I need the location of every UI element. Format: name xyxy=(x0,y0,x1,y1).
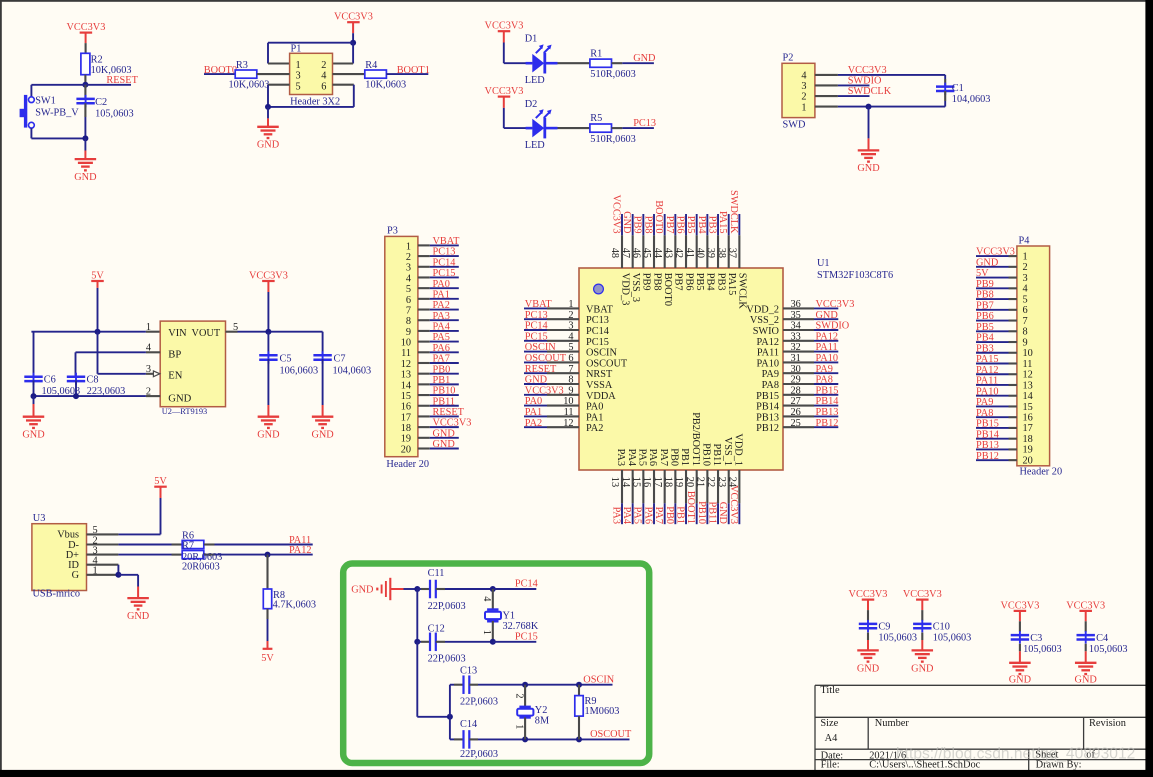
mcu U1 STM32F103C8T6 xyxy=(579,268,783,470)
svg-text:PB5: PB5 xyxy=(694,273,705,291)
capacitor C10 xyxy=(921,600,923,611)
svg-text:29: 29 xyxy=(791,375,801,386)
U1 pin 16 net PA6 xyxy=(641,449,658,525)
svg-text:R4: R4 xyxy=(365,60,377,71)
svg-text:41: 41 xyxy=(684,248,695,258)
svg-text:PB9: PB9 xyxy=(632,216,643,234)
svg-text:USB-mrico: USB-mrico xyxy=(33,589,80,600)
svg-text:LED: LED xyxy=(525,140,546,151)
capacitor C13 net OSCIN xyxy=(450,684,454,686)
svg-text:PC15: PC15 xyxy=(586,337,609,348)
svg-text:2: 2 xyxy=(513,693,524,698)
svg-text:2: 2 xyxy=(568,310,573,321)
svg-text:VBAT: VBAT xyxy=(586,304,614,315)
svg-text:1: 1 xyxy=(568,299,573,310)
svg-text:1: 1 xyxy=(296,60,301,71)
svg-text:19: 19 xyxy=(1023,445,1033,456)
capacitor C2 xyxy=(84,85,86,99)
pin 10 net PB3 xyxy=(976,343,1033,359)
U1 pin 43 net PB7 xyxy=(663,214,684,291)
svg-text:PA12: PA12 xyxy=(976,365,999,376)
node xyxy=(866,104,872,110)
svg-text:10: 10 xyxy=(401,338,411,349)
svg-text:20: 20 xyxy=(684,477,695,487)
svg-text:PB10: PB10 xyxy=(696,501,707,524)
capacitor C1 xyxy=(944,75,946,79)
pin 6 net PB7 xyxy=(976,300,1028,316)
svg-text:PB11: PB11 xyxy=(711,443,722,466)
power VCC3V3 (U2 out) xyxy=(249,270,288,281)
resistor R9 xyxy=(576,682,582,688)
svg-text:13: 13 xyxy=(401,370,411,381)
svg-text:PA10: PA10 xyxy=(756,358,779,369)
svg-text:LED: LED xyxy=(525,75,546,86)
power VCC3V3 (reset pull-up) xyxy=(66,22,105,33)
svg-text:28: 28 xyxy=(791,385,801,396)
svg-text:43: 43 xyxy=(663,248,674,258)
power VCC3V3 (C3) xyxy=(1000,600,1039,611)
svg-text:45: 45 xyxy=(641,248,652,258)
U1 pin 29 net PA8 xyxy=(762,375,839,391)
pin 5 VOUT xyxy=(226,331,238,333)
pin 14 net PB1 xyxy=(401,375,459,391)
U1 pin 13 net PA3 xyxy=(609,449,626,525)
svg-text:3: 3 xyxy=(146,364,151,375)
capacitor C12 net PC15 xyxy=(416,589,418,642)
svg-text:U2—RT9193: U2—RT9193 xyxy=(162,407,208,416)
svg-text:PB10: PB10 xyxy=(433,386,456,397)
svg-text:PB11: PB11 xyxy=(706,501,717,524)
svg-text:SW-PB_V: SW-PB_V xyxy=(35,108,79,119)
svg-text:C9: C9 xyxy=(878,622,890,633)
power 5V (USB) xyxy=(154,476,167,487)
svg-text:PB7: PB7 xyxy=(664,216,675,234)
svg-text:Header 20: Header 20 xyxy=(1020,467,1063,478)
svg-text:18: 18 xyxy=(663,477,674,487)
svg-text:VDD_3: VDD_3 xyxy=(619,273,630,306)
svg-text:11: 11 xyxy=(401,348,411,359)
svg-text:GND: GND xyxy=(816,310,839,321)
svg-text:VCC3V3: VCC3V3 xyxy=(1066,600,1105,611)
node xyxy=(95,329,101,335)
svg-text:9: 9 xyxy=(406,327,411,338)
svg-text:PB12: PB12 xyxy=(816,418,839,429)
svg-text:PC15: PC15 xyxy=(433,268,456,279)
svg-text:GND: GND xyxy=(433,428,456,439)
svg-text:PA12: PA12 xyxy=(289,545,312,556)
svg-text:PB3: PB3 xyxy=(715,273,726,291)
U1 pin 48 net VCC3V3 xyxy=(609,195,630,306)
U1 pin 22 net PB11 xyxy=(705,443,722,524)
svg-text:D2: D2 xyxy=(525,99,538,110)
svg-text:PB4: PB4 xyxy=(696,216,707,234)
U1 pin 5 net OSCIN xyxy=(524,342,617,358)
svg-text:PB1: PB1 xyxy=(674,506,685,524)
svg-text:VDD_1: VDD_1 xyxy=(732,433,743,466)
svg-text:3: 3 xyxy=(406,263,411,274)
svg-text:C6: C6 xyxy=(44,374,56,385)
svg-text:PB4: PB4 xyxy=(976,333,994,344)
svg-text:G: G xyxy=(72,570,80,581)
U1 pin 19 net PB1 xyxy=(673,448,690,524)
wire xyxy=(404,588,418,590)
svg-text:C4: C4 xyxy=(1096,633,1108,644)
U1 pin 10 net PA0 xyxy=(524,396,603,412)
svg-text:PB5: PB5 xyxy=(685,216,696,234)
svg-text:PB13: PB13 xyxy=(756,412,779,423)
svg-text:16: 16 xyxy=(401,402,411,413)
pin 4 net PC15 xyxy=(406,268,459,284)
svg-text:PA9: PA9 xyxy=(976,397,993,408)
svg-text:3: 3 xyxy=(296,71,301,82)
svg-text:PA7: PA7 xyxy=(658,449,669,466)
svg-text:VCC3V3: VCC3V3 xyxy=(433,418,472,429)
pin 11 net PA15 xyxy=(976,354,1032,370)
node xyxy=(115,572,121,578)
U1 pin 27 net PB14 xyxy=(756,396,838,412)
pin 9 net PB4 xyxy=(976,333,1028,349)
power VCC3V3 (C9) xyxy=(849,589,888,600)
capacitor C6 xyxy=(33,332,35,377)
svg-text:BP: BP xyxy=(168,350,181,361)
resistor R6 net PA11 xyxy=(118,544,171,546)
U3 pin 1 G xyxy=(72,566,119,582)
svg-text:VDD_2: VDD_2 xyxy=(746,304,779,315)
svg-text:10: 10 xyxy=(1023,348,1033,359)
svg-text:1: 1 xyxy=(146,322,151,333)
U1 pin 18 net PB0 xyxy=(663,448,680,524)
svg-text:PA8: PA8 xyxy=(816,375,833,386)
wire xyxy=(268,42,353,44)
svg-text:U3: U3 xyxy=(33,513,46,524)
svg-text:Y2: Y2 xyxy=(535,705,548,716)
U1 pin 34 net SWDIO xyxy=(753,321,850,337)
svg-text:2: 2 xyxy=(801,92,806,103)
pin 1 net VCC3V3 xyxy=(976,247,1028,263)
LED D1 xyxy=(526,44,558,73)
U1 pin 42 net PB6 xyxy=(673,214,694,291)
svg-text:PC13: PC13 xyxy=(525,310,548,321)
svg-text:PC14: PC14 xyxy=(586,326,609,337)
svg-text:PC15: PC15 xyxy=(525,331,548,342)
svg-text:A4: A4 xyxy=(825,733,839,744)
pin 16 net PB11 xyxy=(401,396,459,412)
svg-text:Revision: Revision xyxy=(1089,718,1127,729)
svg-text:VCC3V3: VCC3V3 xyxy=(485,86,524,97)
svg-text:105,0603: 105,0603 xyxy=(1089,644,1128,655)
U1 pin 45 net PB8 xyxy=(641,214,662,291)
svg-text:GND: GND xyxy=(857,664,880,675)
svg-text:15: 15 xyxy=(401,391,411,402)
LED D2 xyxy=(526,109,558,138)
U1 pin 25 net PB12 xyxy=(756,418,838,434)
svg-text:5V: 5V xyxy=(154,476,167,487)
svg-text:5V: 5V xyxy=(91,270,104,281)
svg-text:19: 19 xyxy=(401,434,411,445)
pin 12 net PA12 xyxy=(976,365,1033,381)
svg-text:21: 21 xyxy=(695,477,706,487)
capacitor C11 net PC14 xyxy=(417,588,421,590)
svg-text:PB1: PB1 xyxy=(679,448,690,466)
svg-text:OSCOUT: OSCOUT xyxy=(525,353,567,364)
svg-text:4: 4 xyxy=(1023,284,1028,295)
svg-text:GND: GND xyxy=(351,584,374,595)
ground (P2) xyxy=(868,107,870,139)
ground (C4) xyxy=(1075,663,1098,686)
svg-text:PB14: PB14 xyxy=(816,396,839,407)
svg-text:10K,0603: 10K,0603 xyxy=(365,79,406,90)
wire VIN xyxy=(31,331,145,333)
svg-text:PA6: PA6 xyxy=(647,449,658,466)
U1 pin 4 net PC15 xyxy=(524,331,609,347)
pin 19 net GND xyxy=(401,428,459,444)
svg-text:11: 11 xyxy=(1023,359,1033,370)
wire RESET xyxy=(85,84,131,86)
svg-text:PC13: PC13 xyxy=(633,118,656,129)
pin 15 net PB10 xyxy=(401,386,459,402)
node xyxy=(447,714,453,720)
svg-text:PB7: PB7 xyxy=(673,273,684,291)
svg-text:105,0603: 105,0603 xyxy=(878,632,917,643)
svg-text:PA15: PA15 xyxy=(976,354,999,365)
svg-text:PA10: PA10 xyxy=(816,353,839,364)
U1 pin 24 net VCC3V3 xyxy=(727,433,744,524)
ground (U2 input) xyxy=(33,396,35,404)
svg-text:6: 6 xyxy=(321,81,326,92)
svg-text:22: 22 xyxy=(705,477,716,487)
svg-text:PB8: PB8 xyxy=(651,273,662,291)
svg-text:9: 9 xyxy=(568,385,573,396)
svg-text:PA8: PA8 xyxy=(762,380,779,391)
wire xyxy=(838,106,945,108)
svg-text:2: 2 xyxy=(321,60,326,71)
U3 pin 5 Vbus xyxy=(57,525,118,541)
svg-text:PA1: PA1 xyxy=(433,289,450,300)
svg-text:4: 4 xyxy=(481,596,492,601)
svg-text:R7: R7 xyxy=(182,540,194,551)
svg-text:5V: 5V xyxy=(261,653,274,664)
svg-text:PA2: PA2 xyxy=(586,423,603,434)
svg-text:35: 35 xyxy=(791,310,801,321)
wire xyxy=(503,31,505,42)
node xyxy=(31,393,37,399)
svg-text:46: 46 xyxy=(631,248,642,258)
svg-text:PB8: PB8 xyxy=(642,216,653,234)
svg-text:Size: Size xyxy=(820,718,838,729)
svg-text:13: 13 xyxy=(609,477,620,487)
svg-text:VCC3V3: VCC3V3 xyxy=(903,589,942,600)
svg-text:SWCLK: SWCLK xyxy=(737,273,748,310)
svg-text:C8: C8 xyxy=(87,374,99,385)
pin 9 net PA4 xyxy=(406,322,459,338)
pin 18 net PB14 xyxy=(976,429,1033,445)
resistor R2 xyxy=(81,53,90,74)
svg-text:OSCOUT: OSCOUT xyxy=(586,358,628,369)
svg-text:GND: GND xyxy=(525,375,548,386)
svg-text:GND: GND xyxy=(717,502,728,525)
svg-text:44: 44 xyxy=(652,248,663,258)
svg-text:VCC3V3: VCC3V3 xyxy=(728,485,739,524)
svg-text:15: 15 xyxy=(631,477,642,487)
U1 pin 20 net BOOT1 xyxy=(684,412,701,524)
svg-text:14: 14 xyxy=(401,380,411,391)
svg-text:19: 19 xyxy=(673,477,684,487)
svg-text:1: 1 xyxy=(1023,251,1028,262)
svg-text:PC13: PC13 xyxy=(433,247,456,258)
svg-text:8: 8 xyxy=(406,316,411,327)
svg-text:VCC3V3: VCC3V3 xyxy=(66,22,105,33)
svg-text:PB10: PB10 xyxy=(700,443,711,466)
svg-text:PA5: PA5 xyxy=(636,449,647,466)
svg-text:105,0603: 105,0603 xyxy=(933,632,972,643)
ground (C9) xyxy=(857,650,880,674)
svg-text:BOOT0: BOOT0 xyxy=(653,200,664,233)
svg-text:PB14: PB14 xyxy=(756,402,779,413)
U1 pin 12 net PA2 xyxy=(524,418,603,434)
svg-text:GND: GND xyxy=(127,611,150,622)
svg-text:PA8: PA8 xyxy=(976,408,993,419)
U1 pin 11 net PA1 xyxy=(524,407,603,423)
svg-text:PA7: PA7 xyxy=(653,507,664,524)
net PC14 xyxy=(493,588,537,590)
svg-text:OSCIN: OSCIN xyxy=(586,348,617,359)
svg-text:GND: GND xyxy=(911,664,934,675)
svg-text:RESET: RESET xyxy=(433,407,465,418)
svg-text:PB3: PB3 xyxy=(706,216,717,234)
wire xyxy=(449,685,451,740)
svg-text:105,0603: 105,0603 xyxy=(1023,644,1062,655)
node xyxy=(265,104,271,110)
U1 pin 44 net BOOT0 xyxy=(652,200,673,306)
svg-text:GND: GND xyxy=(857,163,880,174)
resistor R4 / net BOOT1 xyxy=(333,73,365,75)
svg-text:4: 4 xyxy=(568,331,573,342)
svg-text:36: 36 xyxy=(791,299,801,310)
svg-text:9: 9 xyxy=(1023,337,1028,348)
svg-text:SW1: SW1 xyxy=(35,95,56,106)
wire / ground (USB) xyxy=(118,574,138,576)
svg-text:1: 1 xyxy=(93,566,98,577)
svg-text:PB11: PB11 xyxy=(433,396,456,407)
svg-text:12: 12 xyxy=(1023,370,1033,381)
svg-text:PA0: PA0 xyxy=(433,279,450,290)
power VCC3V3 (LED D2) xyxy=(485,86,524,97)
ground xyxy=(84,138,86,150)
svg-text:510R,0603: 510R,0603 xyxy=(590,69,635,80)
svg-text:6: 6 xyxy=(568,353,573,364)
svg-text:VCC3V3: VCC3V3 xyxy=(976,247,1015,258)
ground (C3) xyxy=(1009,663,1032,686)
svg-text:PA5: PA5 xyxy=(433,332,450,343)
resistor R8 xyxy=(266,555,268,589)
svg-text:P4: P4 xyxy=(1019,236,1030,247)
svg-text:OSCIN: OSCIN xyxy=(583,674,614,685)
svg-text:PB3: PB3 xyxy=(976,343,994,354)
svg-text:11: 11 xyxy=(564,407,574,418)
power VCC3V3 (LED D1) xyxy=(485,21,524,32)
svg-text:PA11: PA11 xyxy=(757,348,779,359)
pin 13 net PA11 xyxy=(976,376,1033,392)
svg-text:PB0: PB0 xyxy=(664,506,675,524)
svg-text:GND: GND xyxy=(433,439,456,450)
svg-text:PB13: PB13 xyxy=(816,407,839,418)
U1 pin 47 net GND xyxy=(620,211,641,302)
svg-text:PC13: PC13 xyxy=(586,315,609,326)
svg-text:C13: C13 xyxy=(460,666,477,677)
svg-text:PA4: PA4 xyxy=(621,507,632,524)
svg-text:PA4: PA4 xyxy=(433,322,450,333)
crystal Y2 8M xyxy=(522,682,528,688)
svg-text:EN: EN xyxy=(168,371,182,382)
svg-text:12: 12 xyxy=(563,418,573,429)
pin 2 net PC13 xyxy=(406,247,459,263)
wire xyxy=(558,62,590,64)
svg-text:PA0: PA0 xyxy=(525,396,542,407)
svg-text:PB2/BOOT1: PB2/BOOT1 xyxy=(690,412,701,466)
resistor R5 xyxy=(590,124,612,132)
pin 5 net PB8 xyxy=(976,290,1028,306)
svg-text:R5: R5 xyxy=(590,113,602,124)
svg-text:30: 30 xyxy=(791,364,801,375)
pin 4 / wire BP xyxy=(146,351,160,353)
svg-text:PA11: PA11 xyxy=(816,342,838,353)
svg-text:PA2: PA2 xyxy=(525,418,542,429)
svg-text:26: 26 xyxy=(791,407,801,418)
svg-text:22P,0603: 22P,0603 xyxy=(428,654,466,665)
svg-text:104,0603: 104,0603 xyxy=(952,94,991,105)
pin 3 net 5V xyxy=(976,268,1028,284)
pin 18 net VCC3V3 xyxy=(401,418,472,434)
wire xyxy=(268,84,290,86)
svg-text:20R0603: 20R0603 xyxy=(182,561,220,572)
svg-text:PA4: PA4 xyxy=(626,449,637,466)
svg-text:VSSA: VSSA xyxy=(586,380,613,391)
U1 pin 21 net PB10 xyxy=(695,443,712,524)
svg-text:OSCIN: OSCIN xyxy=(525,342,556,353)
svg-text:4: 4 xyxy=(321,71,326,82)
svg-text:VCC3V3: VCC3V3 xyxy=(334,12,373,23)
power VCC3V3 (P1) xyxy=(334,12,373,23)
wire xyxy=(352,43,354,64)
svg-text:RESET: RESET xyxy=(106,75,138,86)
svg-text:39: 39 xyxy=(705,248,716,258)
svg-text:PA10: PA10 xyxy=(976,386,999,397)
switch SW1 xyxy=(20,95,35,128)
wire xyxy=(352,22,354,33)
svg-text:5: 5 xyxy=(568,342,573,353)
pin 8 net PA3 xyxy=(406,311,459,327)
wire xyxy=(85,33,87,44)
U3 pin 3 D+ xyxy=(66,545,119,561)
svg-text:PB15: PB15 xyxy=(976,419,999,430)
U1 pin 23 net GND xyxy=(716,437,733,525)
U1 pin 37 net SWDCLK xyxy=(727,190,748,309)
svg-text:4: 4 xyxy=(406,273,411,284)
svg-text:37: 37 xyxy=(727,248,738,258)
svg-text:1M0603: 1M0603 xyxy=(585,706,620,717)
svg-text:PC15: PC15 xyxy=(515,631,538,642)
svg-text:5: 5 xyxy=(1023,294,1028,305)
U1 pin 7 net RESET xyxy=(524,364,613,380)
svg-text:223,0603: 223,0603 xyxy=(87,386,126,397)
svg-text:16: 16 xyxy=(1023,413,1033,424)
node xyxy=(82,135,88,141)
U3 pin 4 ID xyxy=(68,556,118,572)
U1 pin 30 net PA9 xyxy=(762,364,839,380)
svg-text:17: 17 xyxy=(401,412,411,423)
svg-text:VSS_2: VSS_2 xyxy=(750,315,779,326)
svg-text:2: 2 xyxy=(1023,262,1028,273)
